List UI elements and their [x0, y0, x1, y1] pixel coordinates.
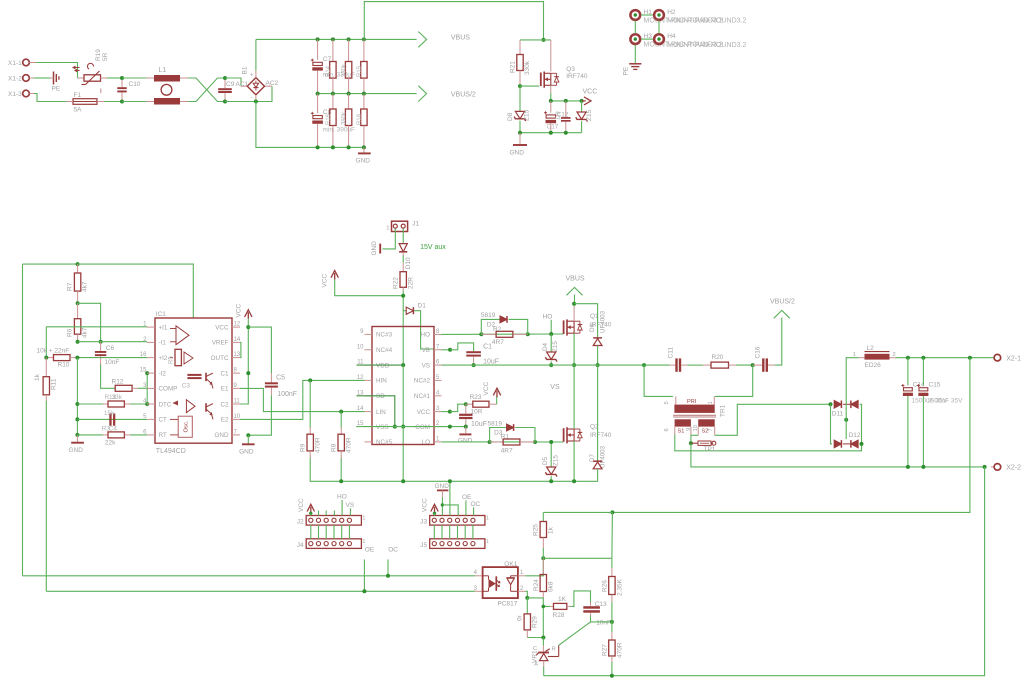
junction: [448, 479, 452, 483]
wire feedback sense from X2-1: [612, 358, 970, 513]
diode D6 UF4003: [593, 337, 602, 339]
junction: [464, 425, 468, 429]
svg-text:15k: 15k: [104, 410, 115, 417]
wire R28 node down to VR1 node: [542, 606, 544, 637]
wire secondary center tap to TP1: [690, 427, 692, 436]
svg-text:2.35K: 2.35K: [616, 578, 623, 596]
wire R7 junction to C6 column: [78, 303, 101, 341]
wire H3 to PE earth: [634, 45, 636, 64]
svg-text:VS: VS: [422, 362, 430, 369]
resistor R10 10k: [46, 357, 53, 359]
svg-text:5A: 5A: [74, 107, 83, 114]
svg-text:R11: R11: [50, 378, 57, 390]
svg-text:1: 1: [708, 401, 714, 404]
transformer TR1: [674, 405, 714, 413]
wire center tap to X2-2 rail: [691, 443, 985, 467]
resistor R12 33k: [115, 385, 132, 391]
svg-text:22k: 22k: [105, 440, 116, 447]
net arrow VBUS: [418, 32, 426, 48]
svg-text:X2-1: X2-1: [1006, 356, 1021, 363]
resistor R2 22k RT: [77, 434, 103, 436]
svg-text:VCC: VCC: [583, 89, 598, 96]
svg-text:D11: D11: [832, 411, 844, 418]
svg-text:R6: R6: [67, 328, 74, 337]
svg-text:VDD: VDD: [376, 362, 390, 369]
junction: [75, 356, 79, 360]
junction: [564, 131, 568, 135]
svg-text:D8: D8: [507, 112, 514, 121]
wire R22 down to VDD column: [402, 291, 404, 311]
svg-text:470R: 470R: [345, 437, 352, 453]
junction: [610, 674, 614, 678]
svg-text:1: 1: [362, 539, 365, 545]
wire COM column to gnd rail: [402, 427, 404, 482]
svg-text:R20: R20: [712, 354, 724, 361]
svg-text:11: 11: [234, 399, 241, 405]
IC2 pin 4 NC#1: [434, 395, 442, 397]
svg-text:R23: R23: [470, 394, 482, 401]
wire VS to transformer primary pin 5: [644, 365, 673, 396]
wire +I1 corner down to R10 node: [45, 327, 47, 358]
svg-text:COMP: COMP: [159, 386, 178, 393]
svg-text:UF4003: UF4003: [600, 445, 607, 468]
svg-text:J1: J1: [412, 221, 419, 228]
svg-text:HIN: HIN: [376, 378, 387, 385]
wire H3-H4: [641, 38, 653, 40]
wire left feedback top rail: [23, 263, 78, 265]
IC2 pin 7 VB: [434, 349, 442, 351]
junction: [441, 503, 444, 506]
junction: [76, 340, 80, 344]
wire secondary S2 outer to D11 row: [714, 427, 716, 436]
wire bridge minus down to cap bank bottom rail: [255, 95, 257, 102]
svg-text:0r: 0r: [517, 614, 524, 621]
svg-text:D6: D6: [589, 324, 596, 332]
junction: [525, 596, 529, 600]
junction: [572, 479, 576, 483]
resistor R11 1k: [45, 358, 47, 377]
svg-text:H2: H2: [667, 9, 676, 16]
capacitor C3: [187, 374, 201, 376]
wire VBUS top rail: [256, 38, 417, 40]
junction: [120, 100, 124, 104]
resistor R7 4k7: [77, 264, 79, 273]
IC2 pin 6 VS: [434, 364, 442, 366]
junction: [541, 636, 545, 640]
svg-text:1: 1: [486, 516, 489, 522]
svg-text:6k8: 6k8: [547, 581, 554, 592]
wire Q2 source to gnd rail: [573, 441, 575, 481]
svg-text:IRF740: IRF740: [590, 432, 612, 439]
wire Q3 source to VCC rail: [550, 85, 552, 93]
junction: [75, 402, 79, 406]
fuse F1 5A: [73, 99, 97, 105]
resistor R15: [348, 39, 350, 61]
wire SD net stub: [357, 396, 395, 427]
ground GND aux: [519, 133, 521, 145]
IC2 pin 1 LO: [434, 441, 442, 443]
svg-text:R2: R2: [493, 326, 502, 333]
wire VCC node to C5: [248, 327, 271, 373]
svg-text:10k + 22nF: 10k + 22nF: [37, 348, 70, 355]
junction: [921, 356, 925, 360]
svg-text:VCC: VCC: [422, 498, 429, 512]
junction: [331, 92, 335, 96]
IC IC2 driver: [372, 327, 434, 445]
net arrow VCC TL494: [245, 310, 252, 317]
transistor Q3 IRF740: [550, 40, 552, 72]
IC1 pin 1 +I1: [147, 326, 155, 328]
test point TP1: [689, 441, 693, 445]
junction: [549, 332, 553, 336]
svg-text:470R: 470R: [314, 437, 321, 453]
IC1 pin 7 GND: [232, 434, 240, 436]
wire VDD column down: [402, 311, 404, 365]
net arrow VBUS half bridge: [567, 287, 583, 295]
wire cap bank bottom rail: [318, 146, 364, 148]
resistor R27 470R: [611, 622, 613, 632]
wire X1-1 to R19: [29, 62, 36, 64]
net arrow VCC mid: [331, 271, 338, 278]
svg-text:R18: R18: [357, 113, 363, 125]
junction: [339, 479, 343, 483]
wire output rail to X2-1: [896, 357, 995, 359]
svg-text:1500uF 35V: 1500uF 35V: [927, 398, 963, 405]
svg-text:L1: L1: [159, 67, 167, 74]
svg-text:12: 12: [234, 322, 241, 328]
junction: [518, 84, 522, 88]
svg-text:PC817: PC817: [498, 601, 518, 608]
svg-text:C13: C13: [595, 601, 607, 608]
connector X2-1: [994, 354, 1001, 361]
svg-text:13: 13: [234, 352, 241, 358]
IC2 pin 16 NC#5: [365, 441, 373, 443]
wire X1-2 to PE: [29, 77, 34, 79]
resistor R29 0r: [526, 598, 528, 614]
IC2 pin 14 LIN: [365, 411, 373, 413]
earth symbol PE holes: [629, 63, 641, 65]
diode D2 5819 bypass: [481, 319, 500, 334]
junction: [316, 145, 320, 149]
resistor R24 6k8: [542, 558, 544, 574]
svg-text:C1: C1: [483, 344, 492, 351]
svg-text:X2-2: X2-2: [1006, 465, 1021, 472]
svg-text:VBUS: VBUS: [566, 275, 585, 282]
junction: [246, 325, 250, 329]
wire H1-H3: [634, 21, 636, 34]
svg-text:14: 14: [234, 337, 241, 343]
optocoupler OK1 PC817: [483, 567, 518, 598]
svg-text:A: A: [534, 662, 538, 668]
zener diode D9 Z15: [581, 101, 583, 112]
svg-text:VBUS/2: VBUS/2: [451, 92, 476, 99]
net arrow VCC J2: [307, 504, 314, 511]
svg-text:-I2: -I2: [159, 370, 167, 377]
svg-text:5819: 5819: [488, 421, 503, 428]
junction: [610, 510, 614, 514]
svg-text:E1: E1: [221, 386, 229, 393]
svg-text:15: 15: [140, 368, 147, 374]
wire C9 node to bridge AC1: [225, 78, 241, 86]
wire R24 bottom to node: [527, 597, 543, 599]
svg-text:C5: C5: [276, 375, 285, 382]
svg-text:VCC: VCC: [322, 273, 329, 287]
wire H2-H4: [658, 21, 660, 34]
junction: [401, 294, 405, 298]
svg-text:R7: R7: [67, 282, 74, 291]
IC2 pin 15 VSS: [365, 426, 373, 428]
svg-text:33k: 33k: [112, 394, 123, 401]
svg-text:OK1: OK1: [504, 561, 517, 568]
svg-text:SD: SD: [376, 393, 385, 400]
svg-text:MOUNT-PAD-ROUND3.2: MOUNT-PAD-ROUND3.2: [667, 42, 746, 49]
wire R12 to IC1 pin 3 COMP: [132, 387, 138, 389]
wire C16 node to transformer primary pin 1: [715, 365, 753, 396]
svg-text:VCC: VCC: [215, 324, 229, 331]
capacitor C2 CT: [77, 418, 147, 420]
wire fuse to C10 node: [104, 101, 122, 103]
svg-text:min. 390uF: min. 390uF: [323, 127, 356, 134]
svg-text:GND: GND: [510, 150, 525, 157]
svg-text:GND: GND: [356, 158, 371, 165]
connector J1: [392, 221, 408, 231]
svg-text:B1: B1: [242, 66, 249, 74]
svg-text:NC#4: NC#4: [376, 347, 393, 354]
junction: [549, 131, 553, 135]
capacitor C15 1500uF 35V: [922, 358, 924, 386]
wire J3 pin3 to gnd rail: [449, 481, 451, 515]
IC2 pin 3 VCC: [434, 411, 442, 413]
wire L1 crossover: [188, 78, 225, 102]
wire OK1 pin1 to R24 top: [518, 575, 526, 577]
wire C5 to GND pin line: [248, 395, 271, 435]
svg-text:R1: R1: [501, 434, 510, 441]
IC2 pin 12 HIN: [365, 379, 373, 381]
wire R11 down to opto line: [45, 401, 47, 591]
IC2 pin 13 SD: [365, 395, 373, 397]
junction: [120, 76, 124, 80]
junction: [362, 145, 366, 149]
wire VSS COM line: [356, 426, 466, 428]
svg-text:MOUNT-PAD-ROUND3.2: MOUNT-PAD-ROUND3.2: [667, 18, 746, 25]
svg-text:1: 1: [486, 539, 489, 545]
resistor R23 10R: [442, 411, 450, 413]
wire R19 to C10 node: [101, 77, 108, 79]
wire OK1 node line: [543, 557, 612, 559]
svg-text:4k7: 4k7: [82, 327, 89, 338]
svg-text:R: R: [552, 647, 556, 653]
wire VCC to R22 node: [335, 280, 404, 296]
svg-text:1k: 1k: [547, 526, 554, 534]
svg-text:12: 12: [357, 375, 364, 381]
junction: [75, 417, 79, 421]
resistor R18: [363, 94, 365, 109]
diode D3 5819 bypass: [490, 428, 507, 443]
wire riser to top rail: [364, 2, 543, 40]
wire VS line: [442, 364, 645, 366]
wire bottom rail to bridge AC2: [225, 86, 272, 101]
svg-text:R27: R27: [601, 644, 608, 656]
capacitor C12: [550, 101, 552, 113]
capacitor C10: [121, 78, 123, 87]
wire DTC rail vertical: [76, 358, 78, 435]
junction: [246, 371, 250, 375]
IC2 pin 10 NC#4: [365, 349, 373, 351]
connector X1-3: [23, 90, 30, 97]
ground GND cap bank: [363, 147, 365, 152]
junction: [331, 37, 335, 41]
svg-text:D1: D1: [418, 303, 427, 310]
capacitor C14 1500uF 35V: [907, 358, 909, 386]
svg-text:L2: L2: [867, 345, 875, 352]
svg-text:F1: F1: [74, 92, 82, 99]
svg-text:ED26: ED26: [865, 362, 882, 369]
svg-text:D12: D12: [849, 432, 861, 439]
svg-text:GND: GND: [69, 447, 84, 454]
svg-text:2: 2: [893, 352, 896, 358]
svg-text:+: +: [250, 73, 254, 79]
wire bridge plus up to VBUS rail: [255, 71, 257, 78]
inductor L2 ED26: [859, 357, 865, 359]
junction: [564, 99, 568, 103]
wire VBUS node to D6: [574, 304, 598, 338]
junction: [518, 131, 522, 135]
IC2 pin 2 COM: [434, 426, 442, 428]
svg-text:6: 6: [664, 428, 670, 431]
resistor R22 22R: [402, 263, 404, 272]
junction: [906, 356, 910, 360]
svg-text:VB: VB: [422, 347, 430, 354]
svg-text:R19: R19: [95, 49, 102, 61]
diode D7 UF4003: [597, 365, 599, 461]
wire J3 pin4 to gnd: [442, 505, 458, 516]
ground GND TL494 right: [247, 435, 249, 443]
net arrow VBUS/2 right: [775, 318, 782, 366]
svg-text:TR1: TR1: [720, 404, 727, 417]
svg-text:LIN: LIN: [376, 409, 386, 416]
IC1 pin 10 E2: [232, 418, 240, 420]
junction: [362, 92, 366, 96]
wire -I1 line to IC1 pin 2: [78, 341, 147, 343]
IC1 pin 11 C2: [232, 403, 240, 405]
wire VREF to OUTC: [239, 342, 242, 357]
junction: [339, 410, 343, 414]
svg-text:VCC: VCC: [236, 303, 243, 317]
zener diode D5 Z15: [550, 442, 552, 467]
wire VCC to C1 C2 pins: [240, 319, 248, 404]
svg-text:VCC: VCC: [417, 409, 431, 416]
svg-text:R21: R21: [510, 61, 517, 73]
IC1 pin 9 E1: [232, 387, 240, 389]
svg-text:VCC: VCC: [483, 381, 490, 395]
IC1 internal transistor Q1: [205, 373, 207, 382]
wire C13 to R27 node: [591, 616, 612, 622]
junction: [401, 363, 405, 367]
wire HO label stub and D4 column: [550, 320, 552, 334]
svg-text:E2: E2: [221, 417, 229, 424]
IC1 pin 15 -I2: [147, 372, 155, 374]
svg-text:C16: C16: [754, 346, 761, 358]
svg-text:IC1: IC1: [156, 311, 167, 318]
svg-text:X1-3: X1-3: [8, 91, 22, 98]
svg-text:R9: R9: [299, 443, 306, 452]
IC1 pin 12 VCC: [232, 326, 240, 328]
svg-text:VS: VS: [550, 384, 560, 391]
wire VR1 ref to divider: [548, 656, 559, 658]
net arrow VCC J3: [431, 504, 438, 511]
mounting hole H2: [654, 10, 664, 20]
resistor R6 4k7: [77, 303, 79, 318]
svg-text:PE: PE: [623, 66, 630, 75]
svg-text:1: 1: [386, 226, 389, 232]
svg-text:Q3: Q3: [566, 66, 575, 73]
capacitor C11: [644, 364, 669, 366]
wire C10 to L1: [122, 77, 146, 79]
svg-text:NC#1: NC#1: [414, 393, 431, 400]
svg-text:OC: OC: [471, 501, 481, 508]
svg-text:C3: C3: [182, 383, 191, 390]
wire X2-2 to bottom return rail: [544, 467, 985, 676]
wire D1 cathode to VB pin: [414, 311, 434, 349]
ground GND J1: [379, 244, 381, 254]
diode D1 bootstrap: [403, 310, 406, 312]
svg-text:10nF: 10nF: [596, 620, 611, 627]
svg-text:10uF: 10uF: [483, 359, 499, 366]
junction: [386, 574, 390, 578]
svg-text:D5: D5: [542, 456, 549, 465]
junction: [610, 620, 614, 624]
resistor R20: [692, 364, 703, 366]
capacitor C17: [565, 101, 567, 117]
svg-text:4R7: 4R7: [501, 448, 513, 455]
wires J2 pin stubs: [318, 511, 320, 516]
wire D11 center to D12 center: [845, 404, 847, 439]
wire Q1 source to VS: [573, 333, 575, 365]
junction: [844, 418, 848, 422]
capacitor C2 10uF: [465, 404, 467, 414]
svg-text:330k: 330k: [342, 63, 348, 77]
wires J3 to J5 columns: [433, 525, 435, 539]
wire opto line upper from left rail: [23, 575, 475, 577]
svg-text:390k: 390k: [342, 111, 348, 125]
IC1 pin 6 RT: [147, 434, 155, 436]
svg-text:NC#5: NC#5: [376, 439, 393, 446]
resistor R9 470R: [309, 380, 311, 427]
transistor Q2 IRF740: [563, 428, 565, 442]
capacitor C7: [317, 39, 319, 60]
svg-text:R26: R26: [601, 580, 608, 592]
IC1 internal transistor Q2: [205, 403, 207, 412]
svg-text:R5: R5: [169, 356, 175, 364]
IC2 pin 11 VDD: [365, 364, 373, 366]
svg-text:+I2: +I2: [159, 355, 168, 362]
IC1 pin 8 C1: [232, 372, 240, 374]
wire node to R28: [543, 598, 550, 607]
wire C6 to R12: [101, 365, 116, 389]
svg-text:R8: R8: [330, 443, 337, 452]
junction: [526, 332, 530, 336]
junction: [448, 425, 452, 429]
diode D12 pair: [834, 440, 841, 448]
wire R29 to VR1 cathode: [527, 637, 543, 639]
wire top rail to IC1: [78, 264, 194, 318]
IC1 pin 4 DTC: [147, 403, 155, 405]
resistor R21 330k: [519, 40, 521, 55]
junction: [921, 465, 925, 469]
resistor R13 33k DTC: [77, 403, 103, 405]
svg-text:H4: H4: [667, 33, 676, 40]
resistor R18a: [348, 94, 350, 109]
